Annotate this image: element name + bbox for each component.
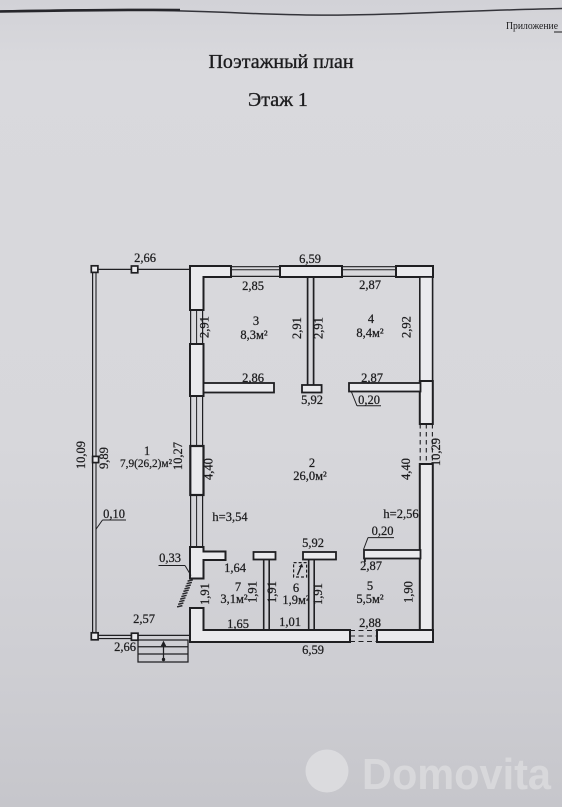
svg-text:Приложение: Приложение [506,20,558,32]
svg-text:0,20: 0,20 [358,393,380,407]
svg-text:4: 4 [368,312,375,326]
svg-text:1,91: 1,91 [311,583,325,605]
porch top line [98,268,132,270]
partition 6/5 stem [309,560,315,631]
wall right dashed opening [420,424,432,464]
scan corner line thick part [0,10,180,12]
porch bottom double line [99,634,132,636]
window top W2 lines [342,267,396,277]
svg-text:Domovita: Domovita [362,750,551,799]
svg-text:5,92: 5,92 [301,393,323,407]
stairs arrow head [161,641,167,647]
wall room4 bottom 2.87 [349,383,421,392]
leader 0,10 [96,520,126,530]
electric symbol arrow [298,566,302,576]
svg-text:2,91: 2,91 [312,317,326,339]
svg-text:0,10: 0,10 [103,507,125,521]
svg-text:h=3,54: h=3,54 [212,510,248,524]
wall room5 top [364,550,421,559]
wall left block mid [190,344,204,396]
svg-text:1,90: 1,90 [402,581,416,603]
door leaf hatched [177,580,193,607]
svg-text:10,29: 10,29 [429,438,443,466]
wall top-left corner L [190,266,231,310]
svg-text:0,33: 0,33 [159,551,181,565]
wall bottom right piece [377,630,433,642]
partition 3/4 bottom cap [302,385,322,393]
porch post C [93,456,99,462]
porch post E [131,633,138,640]
porch post B [131,266,137,273]
svg-text:2,87: 2,87 [361,371,383,385]
leader 0,20 right-mid [352,392,382,406]
svg-text:5,92: 5,92 [302,536,324,550]
svg-text:1,01: 1,01 [279,615,301,629]
wall left window lines 2 [191,396,203,446]
svg-text:10,27: 10,27 [171,442,185,470]
svg-text:2,91: 2,91 [198,316,212,338]
window right 2.92 [420,277,433,381]
wall left white block 4.40 [190,446,203,495]
wall left door-head block with arm [190,547,226,579]
svg-text:8,3м²: 8,3м² [240,328,268,342]
svg-text:6,59: 6,59 [302,643,324,657]
svg-text:6,59: 6,59 [299,252,321,266]
svg-text:Поэтажный план: Поэтажный план [208,51,353,73]
svg-text:1,9м²: 1,9м² [282,593,310,607]
svg-text:2,66: 2,66 [134,251,156,265]
svg-text:9,89: 9,89 [97,447,111,469]
partition 6/5 cap [303,552,336,560]
wall room3 bottom 2.86 [204,383,275,393]
wall top-right corner block [396,266,433,277]
wall left window lines 3 [191,495,203,547]
scan top edge wavy line [0,9,562,16]
svg-text:1,91: 1,91 [246,581,260,603]
partition 7/6 stem [264,560,270,631]
svg-text:1,64: 1,64 [224,561,247,575]
svg-text:2,87: 2,87 [360,559,382,573]
wall right segment A [420,381,433,424]
svg-text:2,66: 2,66 [114,640,136,654]
window top W1 lines [231,267,280,277]
svg-text:4,40: 4,40 [202,458,216,480]
electric symbol dashed box [294,563,307,577]
svg-text:2,85: 2,85 [242,279,264,293]
svg-text:3: 3 [253,314,259,328]
partition 7/6 cap [254,552,276,560]
svg-text:1,91: 1,91 [265,581,279,603]
watermark logo circle [306,750,349,793]
svg-text:2,86: 2,86 [242,371,264,385]
svg-text:3,1м²: 3,1м² [220,592,248,606]
svg-text:1,65: 1,65 [227,617,249,631]
svg-text:2,57: 2,57 [133,612,155,626]
wall left window 2.91 lines [191,310,203,344]
svg-text:2,92: 2,92 [400,316,414,338]
wall right segment B [420,464,433,642]
svg-text:7,9(26,2)м²: 7,9(26,2)м² [120,458,173,470]
porch post A [91,266,98,273]
porch left double line [92,272,94,634]
stairs [138,640,188,662]
svg-text:0,20: 0,20 [372,524,394,538]
svg-text:4,40: 4,40 [399,458,413,480]
svg-text:2,88: 2,88 [359,616,381,630]
svg-text:1: 1 [144,444,150,458]
leader 0,20 right-lower [364,538,395,550]
svg-text:Этаж 1: Этаж 1 [248,89,308,111]
svg-text:8,4м²: 8,4м² [356,326,384,340]
partition rooms 3/4 stem [308,277,314,385]
svg-text:h=2,56: h=2,56 [383,507,418,521]
wall bottom with left corner [190,608,350,642]
svg-text:10,09: 10,09 [74,441,88,469]
leader 0,33 [159,566,192,576]
svg-text:2: 2 [309,456,315,470]
wall top center block [280,266,342,277]
svg-text:5: 5 [367,579,373,593]
svg-text:1,91: 1,91 [198,583,212,605]
svg-text:5,5м²: 5,5м² [356,592,384,606]
wall bottom dashed opening [350,631,377,642]
svg-text:26,0м²: 26,0м² [293,469,327,483]
svg-text:2,87: 2,87 [359,278,381,292]
svg-text:2,91: 2,91 [290,317,304,339]
porch post D [91,633,98,640]
